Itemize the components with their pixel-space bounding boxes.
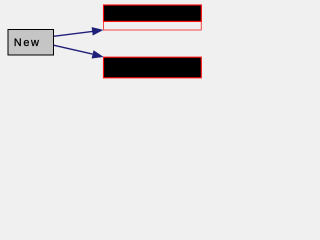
edge New->box1 (upper arrow) — [54, 27, 103, 36]
node box2 (bottom, redacted) — [104, 57, 202, 78]
svg-text:New: New — [14, 37, 41, 49]
background — [0, 0, 209, 88]
node box1 (top, black with red border) — [104, 5, 202, 21]
node box1 outline extension (faint, to y=30) — [104, 5, 202, 30]
edge New->box2 (lower arrow) — [54, 45, 104, 58]
node New (gray) — [8, 30, 54, 56]
